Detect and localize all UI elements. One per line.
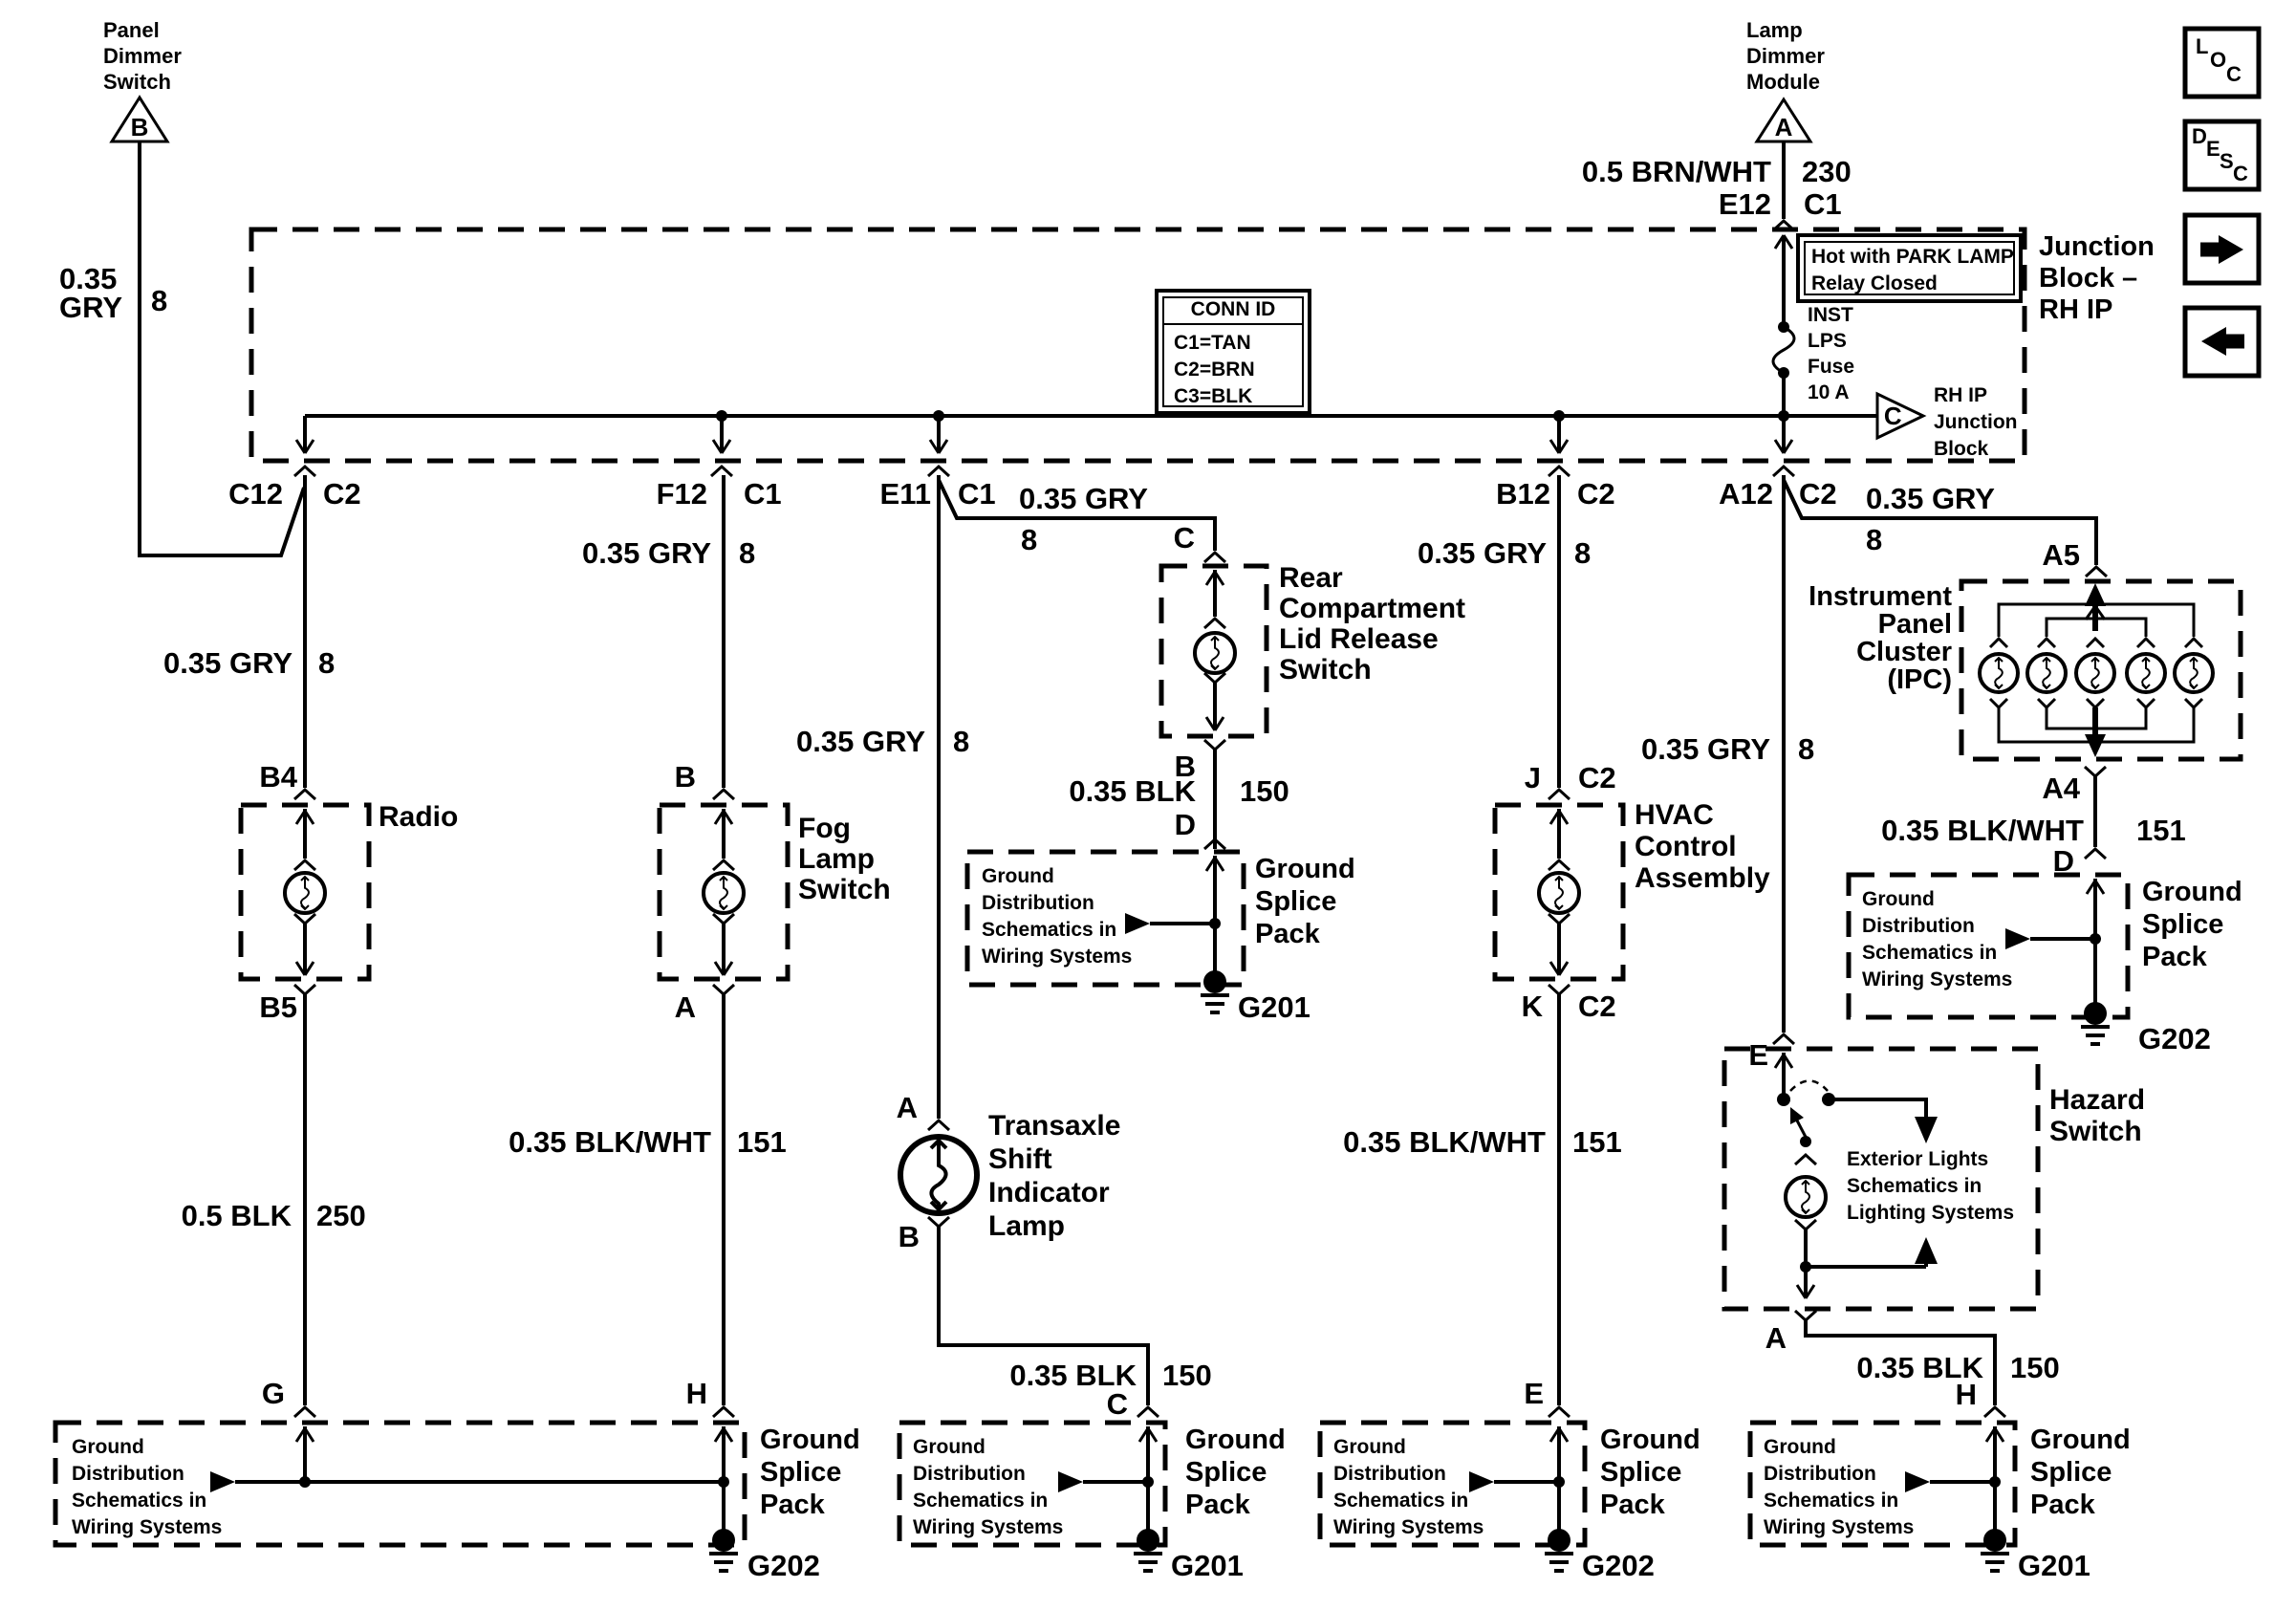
- svg-text:0.35 BLK/WHT: 0.35 BLK/WHT: [1343, 1125, 1546, 1159]
- svg-text:Fuse: Fuse: [1808, 356, 1854, 378]
- svg-text:G202: G202: [2138, 1022, 2211, 1055]
- svg-text:150: 150: [2010, 1351, 2060, 1384]
- fog lamp switch illumination lamp: [704, 873, 744, 913]
- IPC return bold arrow: [2092, 707, 2098, 746]
- svg-text:Schematics in: Schematics in: [1862, 942, 1997, 964]
- wire entry arrow at H: [722, 1426, 726, 1482]
- svg-text:C2: C2: [1799, 477, 1837, 511]
- svg-text:C: C: [2233, 162, 2248, 185]
- ground splice pack box (rear D): [967, 852, 1244, 985]
- svg-text:C2=BRN: C2=BRN: [1174, 359, 1255, 381]
- svg-text:S: S: [2220, 149, 2234, 173]
- svg-text:Hot with PARK LAMP: Hot with PARK LAMP: [1811, 246, 2014, 268]
- wire entry arrow at G: [303, 1426, 307, 1482]
- svg-text:Lighting Systems: Lighting Systems: [1847, 1202, 2014, 1224]
- svg-text:Schematics in: Schematics in: [1847, 1175, 1982, 1197]
- svg-text:Panel: Panel: [103, 18, 160, 42]
- drop wire and arrow at F12: [720, 416, 724, 451]
- ground wire (rear D): [1213, 924, 1217, 982]
- hazard wire to exterior lights arrow (down): [1829, 1099, 1926, 1117]
- ground dot (bottom left): [712, 1529, 735, 1552]
- hvac lamp connector bottom: [1549, 914, 1570, 924]
- svg-text:H: H: [1956, 1378, 1977, 1411]
- ground symbol (bottom E): [1545, 1552, 1573, 1556]
- junction dot at G wire: [299, 1476, 311, 1488]
- svg-text:Ground: Ground: [760, 1425, 860, 1455]
- wire A12 down to Hazard Switch E (0.35 GRY 8): [1782, 475, 1786, 1033]
- svg-text:Lamp: Lamp: [1746, 18, 1803, 42]
- svg-text:Lid Release: Lid Release: [1279, 623, 1439, 655]
- svg-text:C: C: [2226, 62, 2242, 86]
- ground wire (bottom H): [1993, 1482, 1997, 1540]
- svg-text:Dimmer: Dimmer: [103, 44, 182, 68]
- ground dot (bottom E): [1548, 1529, 1570, 1552]
- connector symbol at hvac E: [1549, 1407, 1570, 1417]
- svg-text:(IPC): (IPC): [1887, 664, 1952, 695]
- connector symbol at E12 C1: [1773, 221, 1794, 230]
- svg-text:Ground: Ground: [1600, 1425, 1700, 1455]
- drop wire and arrow at E11: [937, 416, 941, 451]
- IPC outer collector bracket: [1999, 707, 2194, 742]
- connector symbol at hazard A: [1795, 1311, 1816, 1320]
- svg-text:Block –: Block –: [2039, 263, 2137, 294]
- hazard switch lever: [1797, 1120, 1808, 1141]
- junction dot at F12 drop: [716, 410, 727, 422]
- svg-text:B: B: [675, 760, 696, 794]
- connector symbol at B5: [294, 985, 315, 994]
- svg-text:L: L: [2196, 34, 2208, 58]
- svg-text:Switch: Switch: [798, 874, 891, 905]
- wire from Panel Dimmer Switch B to C12 connector (0.35 GRY 8): [140, 141, 304, 555]
- svg-text:G202: G202: [1582, 1549, 1655, 1582]
- arrow into junction block at top (from Lamp Dimmer Module): [1782, 237, 1786, 298]
- Radio dashed box: [241, 805, 369, 979]
- hvac lamp connector top: [1549, 860, 1570, 870]
- branch wire E11 to Rear Compartment Lid Release Switch C: [939, 480, 1215, 551]
- svg-text:Switch: Switch: [1279, 654, 1372, 685]
- HVAC Control Assembly dashed box: [1495, 805, 1623, 979]
- svg-text:8: 8: [1798, 732, 1814, 766]
- svg-text:Hazard: Hazard: [2049, 1084, 2145, 1116]
- svg-text:G202: G202: [747, 1549, 820, 1582]
- svg-text:C2: C2: [323, 477, 361, 511]
- svg-text:G201: G201: [2018, 1549, 2090, 1582]
- ground dot (IPC D): [2084, 1002, 2107, 1025]
- schematic pointer arrow (bottom C): [1058, 1471, 1083, 1492]
- svg-text:Pack: Pack: [760, 1490, 826, 1520]
- svg-text:A: A: [897, 1091, 918, 1124]
- svg-text:Ground: Ground: [2142, 877, 2242, 907]
- connector symbol at G: [294, 1407, 315, 1417]
- svg-text:LPS: LPS: [1808, 330, 1847, 352]
- svg-text:B4: B4: [259, 760, 297, 794]
- svg-text:Wiring Systems: Wiring Systems: [1862, 968, 2012, 990]
- svg-text:8: 8: [318, 646, 335, 680]
- svg-text:250: 250: [316, 1199, 366, 1232]
- wire hazard A to ground H (0.35 BLK 150): [1806, 1320, 1995, 1405]
- Rear Compartment Lid Release Switch dashed box: [1161, 566, 1267, 736]
- svg-text:Pack: Pack: [1185, 1490, 1251, 1520]
- svg-text:151: 151: [2136, 814, 2186, 847]
- hvac internal exit arrow: [1550, 962, 1559, 975]
- svg-text:Control: Control: [1635, 831, 1737, 862]
- svg-text:Radio: Radio: [379, 801, 458, 833]
- radio lamp connector top: [294, 860, 315, 870]
- ground dot (bottom C): [1137, 1529, 1159, 1552]
- wire entry arrow (rear D) at x=1271: [1213, 856, 1217, 924]
- junction dot (bottom E) at x=1631: [1553, 1476, 1565, 1488]
- svg-text:E12: E12: [1719, 187, 1771, 221]
- svg-text:151: 151: [737, 1125, 787, 1159]
- svg-text:INST: INST: [1808, 304, 1853, 326]
- Hot with PARK LAMP Relay Closed box: [1798, 235, 2021, 301]
- svg-text:A: A: [1765, 1321, 1787, 1355]
- Fog Lamp Switch dashed box: [660, 805, 788, 979]
- connector symbol at hazard ground H: [1984, 1407, 2005, 1417]
- svg-text:Ground: Ground: [2030, 1425, 2131, 1455]
- svg-text:RH IP: RH IP: [2039, 294, 2112, 325]
- svg-text:A: A: [1775, 113, 1793, 141]
- svg-text:Splice: Splice: [2142, 909, 2223, 940]
- svg-text:O: O: [2210, 48, 2226, 72]
- svg-text:Compartment: Compartment: [1279, 593, 1465, 624]
- ground splice pack box (bottom H): [1750, 1423, 2015, 1545]
- svg-text:Ground: Ground: [982, 865, 1054, 887]
- rear compartment lid release switch lamp: [1195, 633, 1235, 673]
- svg-text:8: 8: [739, 536, 755, 570]
- svg-text:Schematics in: Schematics in: [1764, 1490, 1898, 1512]
- svg-text:G: G: [262, 1377, 285, 1410]
- IPC lamp 4: [2127, 654, 2165, 692]
- IPC lamp 2: [2027, 654, 2066, 692]
- svg-text:F12: F12: [657, 477, 707, 511]
- svg-text:C12: C12: [228, 477, 283, 511]
- ground wire (bottom E): [1557, 1482, 1561, 1540]
- svg-text:0.35 GRY: 0.35 GRY: [1641, 732, 1770, 766]
- svg-text:Wiring Systems: Wiring Systems: [913, 1516, 1063, 1538]
- hazard internal exit arrow: [1797, 1285, 1806, 1298]
- wire C2 to Radio B4 (0.35 GRY 8): [303, 475, 307, 788]
- svg-text:C: C: [1107, 1387, 1128, 1421]
- svg-text:Distribution: Distribution: [982, 892, 1094, 914]
- svg-text:Dimmer: Dimmer: [1746, 44, 1825, 68]
- svg-text:Fog: Fog: [798, 813, 851, 844]
- svg-text:Ground: Ground: [72, 1436, 144, 1458]
- svg-text:E: E: [1524, 1377, 1544, 1410]
- svg-text:Instrument: Instrument: [1809, 581, 1952, 612]
- connector symbol at transaxle B: [928, 1217, 949, 1227]
- Junction Block - RH IP dashed outline: [251, 229, 2025, 461]
- connector symbol at J: [1549, 790, 1570, 799]
- svg-text:B5: B5: [259, 990, 297, 1024]
- hazard switch illumination lamp: [1786, 1177, 1826, 1217]
- fog lamp connector top: [713, 860, 734, 870]
- svg-text:Schematics in: Schematics in: [913, 1490, 1048, 1512]
- svg-text:Switch: Switch: [2049, 1116, 2142, 1147]
- svg-text:Splice: Splice: [760, 1457, 841, 1488]
- rear lamp connector top: [1204, 619, 1225, 628]
- svg-text:A: A: [675, 990, 696, 1024]
- radio internal exit arrow: [296, 962, 305, 975]
- svg-text:E: E: [1748, 1038, 1768, 1072]
- radio lamp connector bottom: [294, 914, 315, 924]
- svg-text:C: C: [1884, 402, 1902, 430]
- svg-text:C2: C2: [1578, 990, 1616, 1023]
- svg-text:Ground: Ground: [913, 1436, 986, 1458]
- svg-text:Distribution: Distribution: [1764, 1463, 1876, 1485]
- fog switch internal entry arrow: [722, 809, 726, 859]
- connector symbol at B4: [294, 790, 315, 799]
- rear switch internal entry arrow: [1213, 570, 1217, 617]
- ground symbol (bottom C): [1134, 1552, 1162, 1556]
- wire entry arrow (IPC D) at x=2192: [2093, 879, 2097, 939]
- svg-text:CONN ID: CONN ID: [1191, 298, 1276, 320]
- svg-text:150: 150: [1162, 1359, 1212, 1392]
- ground symbol (rear D): [1201, 993, 1229, 997]
- connector symbol at rear B: [1204, 740, 1225, 750]
- svg-text:C1: C1: [744, 477, 782, 511]
- svg-text:Junction: Junction: [1934, 411, 2018, 433]
- svg-text:8: 8: [1866, 523, 1882, 556]
- branch wire A12 to IPC A5: [1784, 480, 2096, 565]
- svg-text:Pack: Pack: [2142, 942, 2208, 972]
- connector symbol at transaxle A: [928, 1120, 949, 1130]
- radio internal entry arrow: [303, 809, 307, 859]
- svg-text:0.35 BLK/WHT: 0.35 BLK/WHT: [509, 1125, 711, 1159]
- hazard switch pivot dot: [1777, 1093, 1790, 1106]
- svg-text:0.35 BLK/WHT: 0.35 BLK/WHT: [1881, 814, 2084, 847]
- hazard internal entry arrow: [1782, 1053, 1786, 1099]
- junction dot at A12 drop: [1778, 410, 1789, 422]
- hvac internal entry arrow: [1557, 809, 1561, 859]
- svg-text:B: B: [131, 113, 149, 141]
- svg-text:C: C: [1174, 521, 1195, 555]
- svg-text:Pack: Pack: [1255, 919, 1321, 949]
- svg-text:10 A: 10 A: [1808, 381, 1850, 403]
- schematic pointer arrow (IPC D): [2005, 928, 2030, 949]
- Instrument Panel Cluster dashed box: [1961, 581, 2241, 759]
- svg-text:0.35 GRY: 0.35 GRY: [1866, 482, 1995, 515]
- connector symbol at fog A: [713, 985, 734, 994]
- connector symbol at A12: [1773, 467, 1794, 476]
- svg-text:230: 230: [1802, 155, 1852, 188]
- svg-text:Indicator: Indicator: [988, 1177, 1110, 1208]
- svg-text:Distribution: Distribution: [1862, 915, 1975, 937]
- svg-text:Schematics in: Schematics in: [1333, 1490, 1468, 1512]
- connector symbol at K: [1549, 985, 1570, 994]
- svg-text:Lamp: Lamp: [798, 843, 875, 875]
- junction dot at B12 drop: [1553, 410, 1565, 422]
- svg-text:C1: C1: [1804, 187, 1842, 221]
- svg-text:C2: C2: [1577, 477, 1615, 511]
- svg-text:0.35 GRY: 0.35 GRY: [1019, 482, 1148, 515]
- svg-text:Switch: Switch: [103, 70, 171, 94]
- svg-text:Ground: Ground: [1764, 1436, 1836, 1458]
- hazard lamp connector bottom: [1795, 1220, 1816, 1229]
- svg-text:Wiring Systems: Wiring Systems: [1333, 1516, 1484, 1538]
- svg-text:G201: G201: [1171, 1549, 1244, 1582]
- svg-text:A5: A5: [2042, 538, 2080, 572]
- svg-text:Wiring Systems: Wiring Systems: [982, 946, 1132, 968]
- connector symbol at rear D: [1204, 839, 1225, 849]
- connector symbol at F12: [711, 467, 732, 476]
- svg-text:HVAC: HVAC: [1635, 799, 1714, 831]
- ground wire (IPC D): [2093, 939, 2097, 1013]
- ground splice pack box (IPC D): [1849, 875, 2128, 1017]
- svg-text:Pack: Pack: [1600, 1490, 1666, 1520]
- connector symbol at ground C: [1137, 1407, 1159, 1417]
- back arrow box: [2185, 308, 2259, 376]
- svg-text:Panel: Panel: [1878, 609, 1952, 640]
- ground dot (bottom H): [1983, 1529, 2006, 1552]
- svg-text:8: 8: [953, 725, 969, 758]
- connector symbol at B12: [1549, 467, 1570, 476]
- svg-text:Cluster: Cluster: [1856, 637, 1952, 667]
- svg-text:GRY: GRY: [59, 291, 122, 324]
- hazard lever lower contact dot: [1800, 1136, 1811, 1147]
- svg-text:C1: C1: [958, 477, 996, 511]
- svg-text:Pack: Pack: [2030, 1490, 2096, 1520]
- svg-text:Splice: Splice: [1185, 1457, 1267, 1488]
- DESC legend box: [2185, 121, 2259, 189]
- ground dot (rear D): [1203, 970, 1226, 993]
- svg-text:G201: G201: [1238, 990, 1310, 1024]
- svg-text:0.35 GRY: 0.35 GRY: [1418, 536, 1547, 570]
- wire E11 down to Transaxle lamp A (0.35 GRY 8): [937, 475, 941, 1119]
- wire entry arrow (bottom H) at x=2087: [1993, 1426, 1997, 1482]
- svg-text:Transaxle: Transaxle: [988, 1110, 1120, 1142]
- ground splice pack box (bottom left): [55, 1423, 745, 1545]
- svg-text:Distribution: Distribution: [913, 1463, 1026, 1485]
- off-page connector triangle A (Lamp Dimmer Module): [1757, 99, 1810, 141]
- connector symbol at A4: [2085, 767, 2106, 776]
- IPC lamp 3: [2076, 654, 2114, 692]
- ground wire (bottom C): [1146, 1482, 1150, 1540]
- svg-text:Distribution: Distribution: [72, 1463, 184, 1485]
- svg-text:0.5 BRN/WHT: 0.5 BRN/WHT: [1582, 155, 1771, 188]
- connector symbol at fog B: [713, 790, 734, 799]
- svg-text:K: K: [1522, 990, 1544, 1023]
- svg-text:J: J: [1525, 761, 1541, 794]
- svg-text:Module: Module: [1746, 70, 1820, 94]
- fuse INST LPS 10A: [1782, 298, 1786, 327]
- fog switch internal exit arrow: [715, 962, 724, 975]
- rear lamp connector bottom: [1204, 673, 1225, 683]
- svg-text:Schematics in: Schematics in: [72, 1490, 206, 1512]
- drop wire and arrow at B12: [1557, 416, 1561, 451]
- svg-text:Ground: Ground: [1185, 1425, 1286, 1455]
- drop wire and arrow at C12: [303, 416, 307, 451]
- svg-text:Ground: Ground: [1333, 1436, 1406, 1458]
- svg-text:C3=BLK: C3=BLK: [1174, 385, 1252, 407]
- junction dot (bottom H) at x=2087: [1989, 1476, 2001, 1488]
- hazard switch dashed throw arc: [1790, 1081, 1828, 1092]
- junction dot (bottom C) at x=1201: [1142, 1476, 1154, 1488]
- svg-text:D: D: [2192, 124, 2207, 148]
- svg-text:0.35 GRY: 0.35 GRY: [582, 536, 711, 570]
- wire C2 to HVAC J (0.35 GRY 8): [1557, 475, 1561, 788]
- connector symbol at fog H: [713, 1407, 734, 1417]
- bus wire inside junction block: [305, 414, 1877, 418]
- schematic pointer arrow (bottom H): [1905, 1471, 1930, 1492]
- junction dot at H wire: [718, 1476, 729, 1488]
- svg-text:Lamp: Lamp: [988, 1210, 1065, 1242]
- svg-text:Assembly: Assembly: [1635, 862, 1770, 894]
- connector symbol at C12: [294, 467, 315, 476]
- connector symbol at IPC D: [2085, 849, 2106, 859]
- svg-text:Exterior Lights: Exterior Lights: [1847, 1148, 1988, 1170]
- connector symbol at hazard E: [1773, 1034, 1794, 1044]
- IPC lamp 5: [2175, 654, 2213, 692]
- svg-text:0.35 GRY: 0.35 GRY: [163, 646, 292, 680]
- wire from Lamp Dimmer Module A into junction block: [1782, 141, 1786, 219]
- LOC legend box: [2185, 29, 2259, 97]
- ground symbol (bottom H): [1981, 1552, 2009, 1556]
- rear switch internal exit arrow: [1206, 717, 1215, 730]
- ground splice pack box (bottom C): [899, 1423, 1165, 1545]
- svg-text:Splice: Splice: [1600, 1457, 1681, 1488]
- connector symbol at rear C: [1204, 553, 1225, 562]
- svg-text:Splice: Splice: [1255, 886, 1336, 917]
- connector symbol at A5: [2086, 567, 2107, 577]
- radio illumination lamp: [285, 873, 325, 913]
- ground symbol (IPC D): [2081, 1025, 2110, 1029]
- svg-text:0.5 BLK: 0.5 BLK: [182, 1199, 292, 1232]
- wire entry arrow (bottom C) at x=1201: [1146, 1426, 1150, 1482]
- svg-text:Ground: Ground: [1255, 854, 1355, 884]
- svg-text:8: 8: [1574, 536, 1591, 570]
- svg-text:150: 150: [1240, 774, 1289, 808]
- triangle C to RH IP Junction Block: [1877, 394, 1923, 438]
- svg-text:Rear: Rear: [1279, 562, 1343, 594]
- svg-text:151: 151: [1572, 1125, 1622, 1159]
- ground splice pack box (bottom E): [1320, 1423, 1585, 1545]
- svg-text:Wiring Systems: Wiring Systems: [72, 1516, 222, 1538]
- svg-text:Ground: Ground: [1862, 888, 1935, 910]
- ground symbol (bottom left): [709, 1552, 738, 1556]
- svg-text:Distribution: Distribution: [1333, 1463, 1446, 1485]
- schematic pointer arrow (bottom left): [210, 1471, 235, 1492]
- schematic pointer arrow (bottom E): [1469, 1471, 1494, 1492]
- svg-text:D: D: [1175, 808, 1196, 841]
- off-page connector triangle B (Panel Dimmer Switch): [112, 98, 167, 141]
- IPC feed bold arrow: [2092, 589, 2098, 631]
- wire transaxle B to ground C (0.35 BLK 150): [939, 1227, 1148, 1405]
- hazard branch wire to exterior lights arrow (up): [1806, 1265, 1926, 1269]
- svg-text:C2: C2: [1578, 761, 1616, 794]
- schematic pointer arrow (rear D): [1125, 913, 1150, 934]
- svg-text:8: 8: [1021, 523, 1037, 556]
- hazard branch junction dot: [1800, 1261, 1811, 1273]
- svg-text:0.35 GRY: 0.35 GRY: [796, 725, 925, 758]
- hazard lamp connector top: [1795, 1155, 1816, 1164]
- svg-text:B: B: [899, 1220, 920, 1253]
- IPC inner collector bracket: [2047, 707, 2146, 729]
- svg-text:A12: A12: [1719, 477, 1773, 511]
- svg-text:Wiring Systems: Wiring Systems: [1764, 1516, 1914, 1538]
- CONN ID table: [1157, 291, 1310, 413]
- svg-text:8: 8: [151, 284, 167, 317]
- svg-text:A4: A4: [2042, 772, 2080, 805]
- HVAC control assembly illumination lamp: [1539, 873, 1579, 913]
- wire entry arrow (bottom E) at x=1631: [1557, 1426, 1561, 1482]
- connector symbol at E11: [928, 467, 949, 476]
- drop wire and arrow at A12: [1782, 416, 1786, 451]
- fog lamp connector bottom: [713, 914, 734, 924]
- Hazard Switch dashed box: [1724, 1049, 2038, 1309]
- ground wire to G202 (bottom left): [722, 1482, 726, 1540]
- svg-text:E: E: [2206, 137, 2220, 161]
